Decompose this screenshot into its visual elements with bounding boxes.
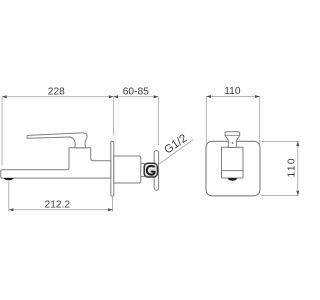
front view: body divider line (222, 170, 244, 172)
dim line 60-85 (113, 96, 158, 98)
ext line front plate bottom right (262, 194, 300, 196)
leader G1/2 (154, 140, 193, 168)
svg-text:110: 110 (224, 86, 241, 97)
dim line 110 right (297, 141, 299, 195)
svg-text:60-85: 60-85 (123, 86, 149, 97)
ext line wall plate (shared 228 / 60-85) (112, 97, 114, 135)
nut G1/2 (144, 163, 157, 177)
front view: stem screw dot (232, 142, 233, 143)
arrows 110 right (296, 141, 299, 146)
svg-text:228: 228 (48, 87, 65, 98)
arrows 212.2 (9, 208, 14, 211)
ext line front plate right top (259, 97, 261, 145)
pipe stub (141, 164, 145, 177)
faucet body and spout (side view) (1, 148, 111, 178)
svg-text:110: 110 (286, 157, 297, 177)
ext line spout tip (1, 97, 3, 166)
union capsule (154, 151, 158, 191)
ext line aerator (8, 181, 10, 211)
valve cylinder (in-wall body) (114, 156, 141, 183)
dimensions (2, 97, 299, 212)
ext line plate bottom (112, 197, 114, 212)
lever handle (side view) (27, 133, 87, 148)
arrowheads (2, 95, 299, 211)
front view: square wall plate (206, 141, 260, 196)
ext line front plate left (205, 97, 207, 145)
wall plate side view (111, 141, 114, 196)
arrows 60-85 (113, 95, 118, 98)
aerator (side view outlet) (4, 178, 14, 180)
arrows 228 (2, 95, 7, 98)
ext line front plate top right (262, 140, 300, 142)
ext line union end (157, 97, 159, 145)
dim line 228 (2, 96, 113, 98)
dim line 110 top (206, 96, 259, 98)
dimension texts (45, 86, 298, 210)
front view: handle cap and stem (225, 132, 240, 148)
dim line 212.2 (9, 209, 113, 211)
front view: outlet ellipse (228, 178, 237, 181)
svg-text:212.2: 212.2 (45, 199, 71, 210)
arrows 110 top (206, 95, 211, 98)
front view: cartridge body (222, 147, 244, 178)
